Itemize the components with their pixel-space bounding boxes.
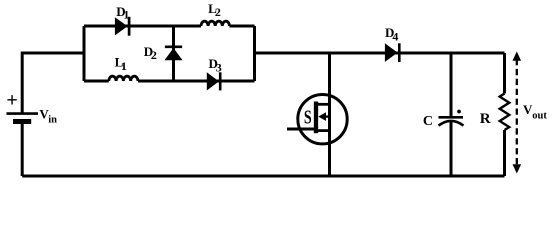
svg-text:1: 1: [121, 59, 127, 73]
svg-text:4: 4: [392, 29, 398, 43]
svg-text:+: +: [6, 90, 17, 112]
svg-text:3: 3: [216, 61, 222, 75]
svg-text:1: 1: [123, 8, 129, 22]
svg-text:out: out: [532, 110, 547, 121]
svg-text:in: in: [48, 114, 57, 125]
svg-text:S: S: [304, 106, 312, 128]
svg-text:C: C: [423, 114, 433, 129]
svg-text:2: 2: [151, 48, 157, 62]
svg-text:R: R: [480, 111, 491, 127]
svg-text:2: 2: [215, 5, 221, 19]
